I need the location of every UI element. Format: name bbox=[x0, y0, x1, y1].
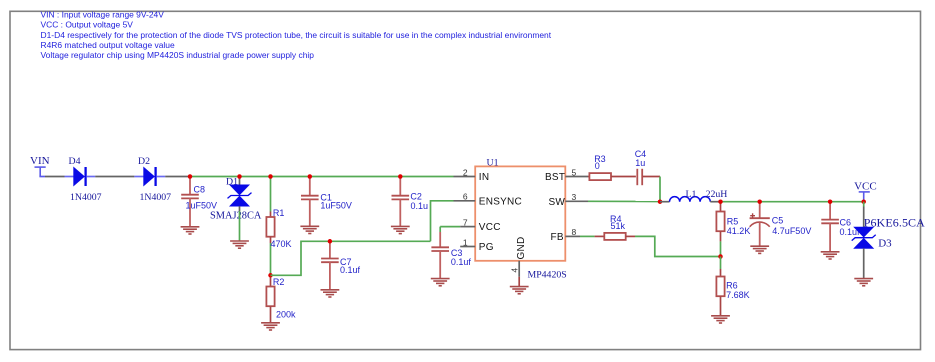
wire D2 cathode lead bbox=[157, 176, 165, 178]
svg-text:Voltage regulator chip using M: Voltage regulator chip using MP4420S ind… bbox=[41, 50, 315, 60]
svg-text:0.1uf: 0.1uf bbox=[340, 265, 361, 275]
wire SW pin to node bbox=[588, 200, 660, 202]
svg-text:8: 8 bbox=[572, 227, 577, 237]
node C6/rail bbox=[828, 199, 833, 204]
svg-text:FB: FB bbox=[551, 232, 564, 243]
pin 4 GND stub bbox=[518, 261, 520, 277]
svg-text:4: 4 bbox=[510, 268, 520, 273]
ground D3 bbox=[854, 279, 873, 286]
op IC U1 MP4420S bbox=[475, 158, 567, 281]
capacitor C3 bbox=[431, 227, 471, 279]
resistor R2 bbox=[266, 275, 296, 323]
capacitor C1 bbox=[301, 177, 352, 227]
svg-text:1N4007: 1N4007 bbox=[140, 192, 172, 203]
node C5/rail bbox=[757, 199, 762, 204]
svg-text:1N4007: 1N4007 bbox=[70, 192, 102, 203]
svg-text:VIN : Input voltage range 9V-2: VIN : Input voltage range 9V-24V bbox=[41, 10, 165, 20]
node R1/rail bbox=[268, 174, 273, 179]
ground C5 bbox=[750, 246, 769, 253]
svg-text:VCC: VCC bbox=[479, 222, 501, 233]
node C2/rail bbox=[398, 174, 403, 179]
wire D2 anode lead bbox=[134, 176, 143, 178]
port VCC bbox=[854, 180, 877, 201]
svg-text:VCC: VCC bbox=[854, 180, 877, 192]
ground C6 bbox=[821, 252, 840, 259]
svg-text:VCC : Output voltage 5V: VCC : Output voltage 5V bbox=[41, 20, 134, 30]
svg-text:BST: BST bbox=[545, 172, 565, 183]
svg-text:L1: L1 bbox=[686, 189, 697, 200]
wire D4 anode lead bbox=[65, 176, 74, 178]
svg-text:1uF50V: 1uF50V bbox=[186, 200, 218, 210]
capacitor C2 bbox=[392, 177, 429, 227]
node R1/R2 divider bbox=[268, 273, 273, 278]
svg-text:0.1u: 0.1u bbox=[411, 201, 429, 211]
ground C3 bbox=[431, 279, 450, 286]
node C1/rail bbox=[308, 174, 313, 179]
wire L1 to output rail bbox=[710, 201, 720, 203]
ground C1 bbox=[300, 226, 319, 233]
inductor L1 bbox=[670, 197, 711, 202]
node L1/R5 bbox=[718, 199, 723, 204]
svg-text:R5: R5 bbox=[727, 217, 739, 227]
wire C4 to SW node bbox=[659, 177, 661, 202]
ground U1 pin 4 bbox=[510, 287, 529, 294]
svg-text:3: 3 bbox=[572, 192, 577, 202]
pin 3 SW stub bbox=[565, 200, 588, 202]
resistor R5 bbox=[716, 202, 750, 257]
wire VIN to D4 bbox=[45, 176, 65, 178]
svg-text:C8: C8 bbox=[194, 185, 206, 195]
pin 5 BST stub bbox=[565, 176, 588, 178]
port VIN bbox=[30, 155, 50, 177]
svg-text:200k: 200k bbox=[276, 310, 296, 320]
svg-text:U1: U1 bbox=[487, 158, 499, 169]
svg-text:C5: C5 bbox=[772, 216, 784, 226]
TVS diode D3 bbox=[852, 202, 925, 279]
notes text block bbox=[41, 10, 552, 60]
svg-text:7.68K: 7.68K bbox=[726, 290, 750, 300]
svg-text:IN: IN bbox=[479, 172, 490, 183]
wire input rail to IN pin bbox=[190, 176, 454, 178]
capacitor C8 bbox=[181, 177, 217, 227]
wire D2 to C8 node bbox=[165, 176, 190, 178]
pin 1 PG stub bbox=[460, 246, 475, 248]
svg-text:0: 0 bbox=[595, 161, 600, 171]
svg-text:R2: R2 bbox=[273, 277, 285, 287]
capacitor C7 bbox=[321, 241, 360, 289]
pin 6 ENSYNC stub bbox=[454, 200, 476, 202]
wire node to L1 bbox=[660, 201, 670, 203]
wire C3 to VCC pin 7 bbox=[440, 226, 460, 228]
svg-text:7: 7 bbox=[463, 217, 468, 227]
node VCC/D3 bbox=[861, 199, 866, 204]
svg-text:D3: D3 bbox=[878, 237, 892, 249]
svg-text:41.2K: 41.2K bbox=[727, 226, 751, 236]
pin 7 VCC stub bbox=[460, 226, 475, 228]
wire output rail bbox=[721, 201, 864, 203]
svg-text:GND: GND bbox=[516, 237, 527, 260]
svg-text:D1: D1 bbox=[226, 177, 238, 188]
svg-text:4.7uF50V: 4.7uF50V bbox=[772, 226, 811, 236]
wire divider to EN line bbox=[271, 241, 431, 275]
wire FB pin to R4 bbox=[580, 235, 595, 237]
capacitor C4 bbox=[635, 149, 660, 185]
resistor R4 bbox=[595, 214, 635, 240]
svg-text:0.1uf: 0.1uf bbox=[451, 257, 472, 267]
svg-text:470K: 470K bbox=[271, 239, 292, 249]
svg-text:1uF50V: 1uF50V bbox=[320, 201, 352, 211]
resistor R3 bbox=[588, 154, 636, 180]
svg-text:D4: D4 bbox=[69, 156, 81, 167]
svg-text:MP4420S: MP4420S bbox=[528, 270, 567, 281]
svg-text:ENSYNC: ENSYNC bbox=[479, 196, 522, 207]
svg-text:VIN: VIN bbox=[30, 155, 50, 167]
ground C7 bbox=[321, 290, 340, 297]
svg-text:PG: PG bbox=[479, 242, 494, 253]
svg-text:D1-D4 respectively for the pro: D1-D4 respectively for the protection of… bbox=[41, 30, 552, 40]
svg-text:5: 5 bbox=[572, 167, 577, 177]
svg-text:22uH: 22uH bbox=[706, 189, 728, 200]
pin 2 IN stub bbox=[454, 176, 476, 178]
svg-text:R1: R1 bbox=[273, 208, 285, 218]
svg-text:C6: C6 bbox=[840, 217, 852, 227]
svg-text:6: 6 bbox=[463, 192, 468, 202]
TVS diode D1 bbox=[210, 177, 262, 242]
svg-text:SW: SW bbox=[549, 197, 566, 208]
capacitor C6 bbox=[821, 202, 860, 252]
wire R4 to R5/R6 node bbox=[635, 236, 721, 256]
svg-text:D2: D2 bbox=[138, 156, 150, 167]
capacitor C5 polarized bbox=[750, 202, 812, 247]
svg-text:R4R6 matched output voltage va: R4R6 matched output voltage value bbox=[41, 40, 175, 50]
svg-text:1: 1 bbox=[463, 237, 468, 247]
ground R2 bbox=[261, 323, 280, 330]
node C7/EN line bbox=[328, 239, 333, 244]
node D1/rail bbox=[237, 174, 242, 179]
wire EN riser to pin 6 bbox=[431, 201, 454, 242]
ground R6 bbox=[711, 316, 730, 323]
svg-text:2: 2 bbox=[463, 167, 468, 177]
resistor R6 bbox=[716, 257, 749, 316]
node SW/C4 bbox=[658, 199, 663, 204]
diode D2 bbox=[144, 167, 156, 186]
wire D4 cathode lead bbox=[87, 176, 95, 178]
node R5/R6/FB bbox=[718, 254, 723, 259]
wire D4 to D2 bbox=[95, 176, 134, 178]
svg-text:1u: 1u bbox=[635, 158, 645, 168]
pin 8 FB stub bbox=[565, 235, 580, 237]
ground D1 bbox=[230, 241, 249, 248]
svg-text:51k: 51k bbox=[611, 221, 626, 231]
resistor R1 bbox=[266, 177, 291, 276]
svg-text:R6: R6 bbox=[726, 281, 738, 291]
svg-text:SMAJ28CA: SMAJ28CA bbox=[210, 210, 262, 221]
ground C2 bbox=[391, 226, 410, 233]
node C8/rail bbox=[188, 174, 193, 179]
ground C8 bbox=[181, 227, 200, 234]
diode D4 bbox=[74, 167, 86, 186]
